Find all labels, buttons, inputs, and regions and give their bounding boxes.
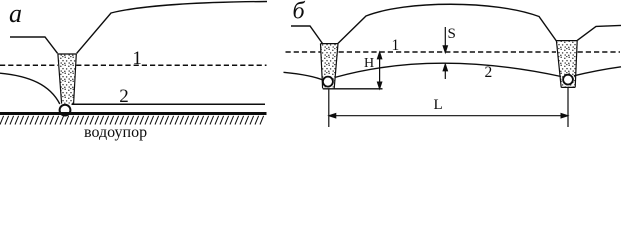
svg-text:водоупор: водоупор xyxy=(84,124,147,141)
svg-text:S: S xyxy=(448,26,456,42)
svg-text:2: 2 xyxy=(119,86,129,107)
svg-text:а: а xyxy=(9,0,22,28)
svg-text:L: L xyxy=(434,97,443,113)
svg-text:2: 2 xyxy=(485,64,493,81)
svg-text:1: 1 xyxy=(132,48,142,69)
svg-text:1: 1 xyxy=(392,37,400,54)
svg-text:б: б xyxy=(293,0,306,25)
svg-text:H: H xyxy=(364,56,374,71)
